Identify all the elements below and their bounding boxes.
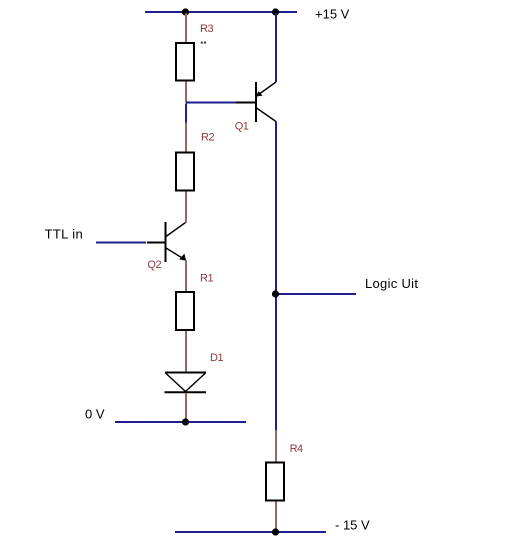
svg-text:TTL in: TTL in: [45, 226, 83, 241]
svg-text:Logic Uit: Logic Uit: [365, 276, 418, 291]
wire R1 bottom lead: [185, 331, 187, 373]
resistor R3: [176, 43, 194, 81]
node junction dot logic out: [272, 290, 279, 297]
resistor R1: [176, 292, 194, 330]
svg-text:R4: R4: [290, 443, 303, 455]
wire Q2 emitter lead to R1: [185, 260, 187, 291]
wire blue stub below junction: [185, 104, 187, 123]
node junction dot top-right: [272, 8, 279, 15]
svg-text:- 15 V: - 15 V: [335, 518, 370, 533]
transistor Q1: [236, 82, 276, 122]
wire R2 bottom lead: [185, 192, 187, 223]
svg-text:R3: R3: [200, 23, 213, 35]
svg-text:+15 V: +15 V: [315, 7, 350, 22]
wire Q1 collector vertical down: [275, 122, 277, 431]
wire Q2 base (blue segment): [96, 242, 146, 244]
svg-text:Q1: Q1: [235, 121, 249, 133]
transistor Q2: [147, 222, 186, 262]
wire Logic Uit rail: [277, 293, 356, 295]
wire 0V rail: [115, 421, 246, 423]
wire Q1 emitter vertical to rail: [275, 13, 277, 82]
wire -15V bottom rail: [175, 531, 326, 533]
value dots of R3: [201, 42, 203, 44]
node junction dot bottom: [272, 528, 279, 535]
node junction dot 0V: [182, 418, 189, 425]
wire R3 bottom lead: [185, 82, 187, 103]
svg-text:R1: R1: [200, 273, 213, 285]
svg-text:R2: R2: [201, 132, 214, 144]
svg-text:D1: D1: [210, 352, 223, 364]
wire diode bottom lead: [185, 393, 187, 421]
node junction dot top-left: [182, 8, 189, 15]
wire R2 top lead: [185, 123, 187, 153]
wire Q1 base (blue segment): [186, 102, 236, 104]
diode D1: [165, 373, 207, 393]
resistor R2: [176, 153, 194, 191]
wire R4 bottom lead: [275, 502, 277, 532]
wire R4 top lead: [275, 430, 277, 462]
svg-text:Q2: Q2: [147, 259, 161, 271]
wire +15V top rail: [145, 11, 297, 13]
resistor R4: [266, 463, 284, 501]
wire R3 top lead: [185, 13, 187, 42]
svg-text:0 V: 0 V: [85, 407, 105, 422]
